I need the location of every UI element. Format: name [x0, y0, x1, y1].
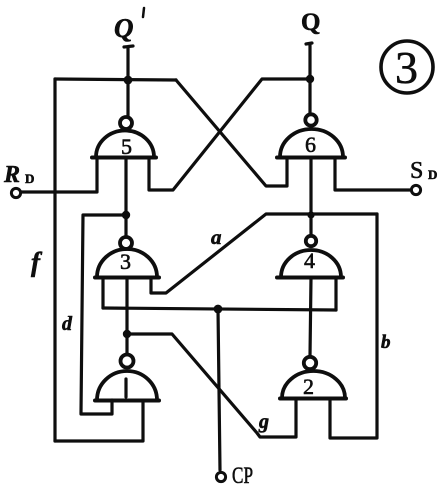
label b: [381, 332, 391, 353]
svg-text:b: b: [381, 332, 391, 353]
wire b : right rail down to gate 2 right input: [330, 214, 377, 438]
node junction dot Q-bar: [124, 76, 133, 85]
terminal CP: [216, 472, 225, 481]
node Q-bar label: [114, 13, 134, 43]
svg-text:D: D: [25, 171, 34, 186]
wire gate 3 left input leg to CP bus: [101, 278, 104, 308]
wire cross diagonal from Q-bar to gate 6 left input: [176, 80, 287, 186]
node Q label: [301, 9, 320, 36]
NAND gate 5: [92, 117, 156, 158]
wire gate 5 center input from node (gate 3 output): [124, 158, 127, 215]
svg-text:2: 2: [303, 374, 314, 399]
node junction gate1 output branch: [123, 330, 131, 338]
wire gate 4 center input from gate 2 output: [310, 278, 311, 356]
NAND gate 3: [95, 237, 159, 278]
wire left outer rail (Q-bar feedback down to gate 1 input): [53, 79, 56, 441]
svg-text:D: D: [428, 167, 437, 182]
label RD: [3, 162, 34, 188]
label f (left rail): [31, 247, 43, 277]
wire a : gate 3 right input leg up-diagonal across to b rail: [151, 214, 377, 293]
NAND gate 1: [124, 379, 127, 397]
wire gate 3 output stem: [124, 215, 127, 237]
svg-text:CP: CP: [232, 463, 253, 488]
svg-text:6: 6: [305, 132, 316, 157]
wire inner left rail to gate 1 left input: [81, 215, 126, 414]
svg-text:a: a: [211, 225, 222, 249]
NAND gate 6: [277, 114, 345, 157]
node junction CP bus: [214, 305, 223, 314]
label a: [211, 225, 222, 249]
svg-text:g: g: [258, 411, 269, 433]
terminal SD: [411, 185, 420, 194]
svg-text:3: 3: [395, 42, 418, 93]
NAND gate 4: [277, 236, 343, 278]
svg-text:Q: Q: [114, 13, 134, 43]
node junction a-wire / gate4 output: [307, 211, 314, 218]
svg-text:3: 3: [120, 249, 131, 274]
label SD: [410, 158, 437, 184]
svg-text:5: 5: [121, 134, 132, 159]
node junction Q: [306, 75, 314, 83]
wire gate 1 output up to gate 3 center input: [125, 278, 128, 354]
wire bottom: outer rail to gate 1 right input: [55, 401, 143, 441]
node junction (gate3 out / gate5 in / inner rail): [122, 211, 130, 219]
svg-text:d: d: [62, 313, 73, 335]
wire RD to gate 5 left input: [21, 158, 97, 192]
wire Q-bar vertical (gate 5 output up to Q-bar): [124, 46, 133, 117]
svg-text:S: S: [410, 158, 423, 184]
wire CP drop: [218, 309, 220, 470]
svg-text:4: 4: [304, 248, 315, 273]
label CP: [232, 463, 253, 488]
wire Q vertical (gate 6 output up to Q): [306, 43, 312, 79]
wire gate 6 center input from gate 4 output: [309, 158, 312, 236]
svg-text:Q: Q: [301, 9, 320, 36]
NAND gate 2: [280, 357, 346, 399]
wire SD to gate 6 right input: [335, 158, 411, 190]
wire top-left horizontal (Q-bar node to rail and cross branch): [55, 79, 176, 80]
wire gate 6 output stem: [308, 79, 311, 114]
figure number circle 3: [381, 41, 433, 93]
terminal RD: [11, 188, 20, 197]
svg-text:R: R: [3, 162, 20, 188]
wire gate 4 right input leg to CP bus: [334, 278, 337, 310]
wire cross diagonal from Q to gate 5 right input: [149, 79, 310, 190]
wire g : gate 1 output diagonal to gate 2 left input: [127, 334, 296, 437]
wire CP bus horizontal: [103, 308, 336, 310]
label g: [258, 411, 269, 433]
prime tick on Q-bar: [143, 8, 144, 17]
label d (inner rail): [62, 313, 73, 335]
